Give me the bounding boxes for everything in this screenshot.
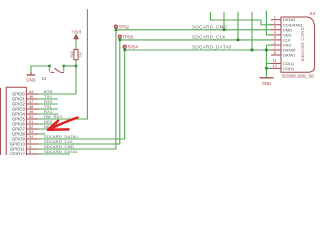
supply +3V3 [71, 30, 82, 39]
annotation red arrow (hand-drawn) [48, 118, 78, 130]
wire BTN node down to header row [75, 66, 77, 94]
svg-text:TP54: TP54 [127, 45, 138, 50]
wire net SDCARD_CMD (row to TP52 drop) [39, 31, 116, 149]
svg-text:SDCARD_CMD: SDCARD_CMD [192, 24, 228, 29]
svg-text:503398-1892_SD: 503398-1892_SD [282, 73, 314, 78]
wire net RX1 [39, 109, 58, 114]
header pin GPIO11 (4) [10, 144, 39, 152]
svg-text:GPIO12: GPIO12 [10, 152, 26, 156]
wire stub to SDCARD_DATA0 [251, 12, 253, 50]
svg-text:GND: GND [262, 81, 271, 86]
svg-text:DATA1: DATA1 [283, 53, 296, 58]
svg-text:GND: GND [26, 78, 35, 83]
node junction CLK [237, 38, 240, 41]
node junction DATA0 [251, 49, 254, 52]
X4 pin 12 CO(2) [271, 63, 295, 71]
svg-text:SDCARD_CLK: SDCARD_CLK [192, 34, 227, 39]
svg-text:12: 12 [273, 63, 277, 68]
header pin GPIO4 (49) [12, 109, 39, 117]
resistor R26 10k (pull-up) [70, 49, 83, 59]
wire stub to SDCARD_CMD [223, 12, 225, 30]
node junction DATA0 crossing [265, 49, 268, 52]
test point TP54 [123, 45, 138, 52]
wire net SDCARD_CLK to pin 5 [120, 34, 271, 40]
svg-text:5: 5 [29, 149, 31, 154]
cut-off symbol edge at left border [0, 88, 2, 155]
wire net GND (vertical to VSS, shield pins, ground) [266, 45, 271, 77]
svg-text:CO(2): CO(2) [283, 66, 295, 71]
node BTN junction [75, 65, 78, 68]
X4 pin 6 VSS [271, 40, 291, 48]
svg-text:R26: R26 [70, 51, 74, 57]
svg-text:8: 8 [274, 50, 276, 55]
X4 pin 3 CMD [271, 25, 292, 33]
wire net SDCARD_DATA0 (row to TP54 drop) [39, 51, 125, 139]
X4 pin 5 CLK [271, 35, 291, 43]
wire net DE0 [39, 119, 57, 124]
node junction CMD [223, 28, 226, 31]
wire net RX0 [39, 99, 58, 104]
wire net SDCARD_DATA1 (cut at bottom) [39, 149, 79, 154]
wire net CD/DATA3 (top stub, steps down to pin 2) [211, 12, 272, 25]
header pin GPIO1 (46) [12, 94, 39, 102]
wire net TX1 [39, 104, 58, 109]
X4 pin 4 VDD [271, 30, 292, 38]
svg-text:10k: 10k [78, 52, 82, 58]
header pin GPIO6 (51) [12, 119, 39, 127]
svg-text:SDCARD_DATA1: SDCARD_DATA1 [44, 149, 78, 154]
test point TP52 [114, 25, 129, 32]
wire net VDD (vertical from top to pin 4) [266, 11, 271, 35]
wire net SDCARD_DATA0 to pin 7 [125, 45, 271, 51]
wire +3V3 to resistor [75, 39, 77, 50]
switch S1 (pushbutton) [42, 65, 66, 81]
test point TP53 [118, 35, 133, 42]
header pin GPIO12 (5, cut at bottom) [10, 149, 39, 157]
header pin GPIO2 (47) [12, 99, 39, 107]
wire GND to switch left terminal [31, 66, 49, 72]
X4 pin 8 DATA1 [271, 50, 296, 58]
wire resistor to BTN node [75, 60, 77, 66]
header pin GPIO10 (3) [10, 139, 39, 147]
X4 pin 2 CD/DATA3 [271, 20, 303, 28]
svg-text:X4: X4 [310, 11, 316, 17]
header pin GPIO7 (52) [12, 124, 39, 132]
X4 pin 11 CO(1) [271, 58, 295, 66]
svg-text:SDCARD_DATA0: SDCARD_DATA0 [192, 45, 232, 50]
X4 pin 1 DATA2 [271, 15, 296, 23]
wire net TX0 [39, 94, 58, 99]
wire net BTN [39, 89, 77, 94]
svg-text:TP53: TP53 [123, 35, 134, 40]
wire stub GPIO8 [39, 133, 45, 135]
ground symbol (connector) [260, 78, 274, 86]
wire switch right terminal to BTN node [64, 65, 76, 67]
header pin GPIO9 (54) [12, 134, 39, 142]
svg-text:microSD CARD: microSD CARD [300, 26, 305, 61]
wire net SDCARD_CMD to pin 3 [116, 24, 271, 30]
header pin GPIO5 (50) [12, 114, 39, 122]
header pin GPIO8 (53) [12, 129, 39, 137]
header pin GPIO3 (48) [12, 104, 39, 112]
microSD connector X4 box [281, 11, 316, 78]
svg-text:+3V3: +3V3 [71, 30, 82, 35]
svg-text:S1: S1 [42, 76, 48, 81]
wire net HW_REV (runs right then up to open stub) [39, 9, 88, 119]
ground symbol (switch) [26, 72, 35, 83]
wire stub to SDCARD_CLK [237, 12, 239, 40]
GPIO header connector box (partial, left) [6, 87, 26, 155]
wire net DE1 [39, 124, 57, 129]
header pin GPIO0 (44) [12, 89, 39, 97]
X4 pin 7 DATA0 [271, 45, 296, 53]
wire net SDCARD_CLK (row to TP53 drop) [39, 41, 120, 144]
svg-text:TP52: TP52 [119, 25, 130, 30]
node junction shield pin 12 [265, 67, 268, 70]
